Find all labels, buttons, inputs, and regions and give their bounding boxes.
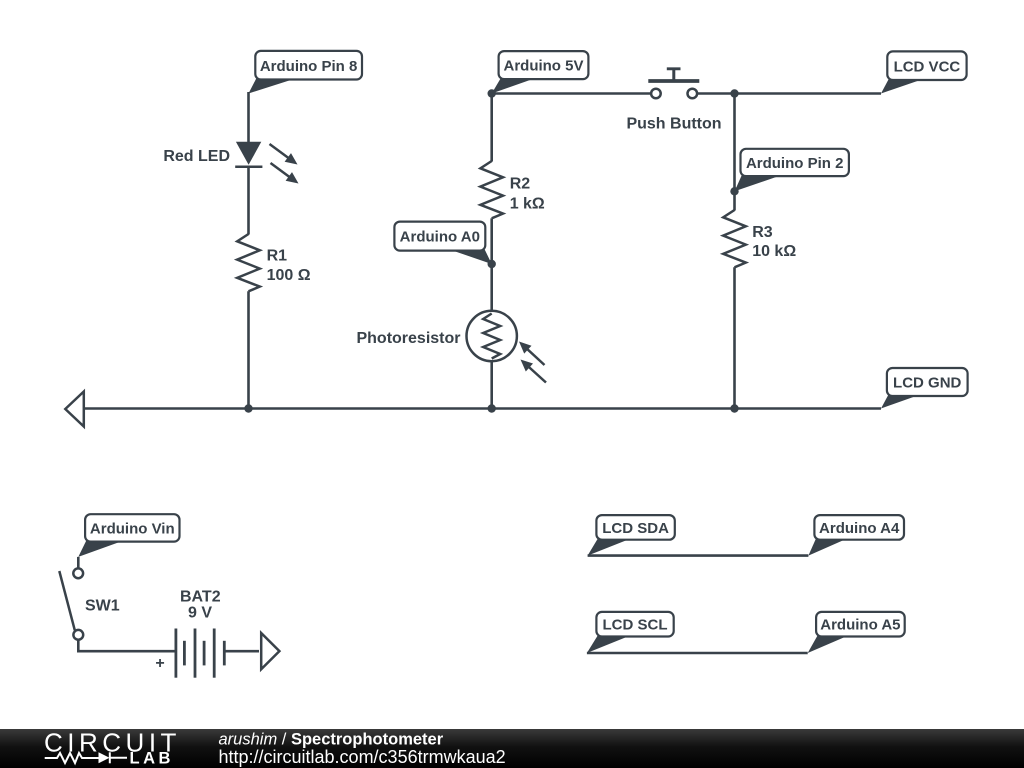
svg-text:Arduino A0: Arduino A0 (400, 229, 480, 246)
svg-text:LAB: LAB (130, 750, 174, 768)
junction rail R3 (730, 404, 738, 412)
svg-text:BAT2: BAT2 (180, 588, 221, 605)
wire LCD VCC junction down to Arduino Pin 2 node (733, 94, 736, 192)
node Arduino A4 (808, 515, 904, 556)
svg-text:Push Button: Push Button (626, 116, 721, 133)
junction on 5V node (488, 89, 496, 97)
svg-text:LCD SCL: LCD SCL (603, 617, 668, 634)
svg-text:LCD GND: LCD GND (893, 375, 961, 392)
wire from Arduino Pin 8 flag down to LED anode (247, 92, 250, 143)
wire R1 to ground rail (247, 291, 250, 408)
CircuitLab logo (44, 728, 181, 768)
wire switch to battery (78, 640, 174, 652)
junction rail R1 (244, 404, 252, 412)
wire R2 to Arduino A0 node (490, 218, 493, 264)
node LCD VCC (881, 51, 967, 93)
node LCD SCL (587, 612, 674, 653)
svg-text:LCD SDA: LCD SDA (602, 520, 669, 537)
label BAT2 9 V (180, 588, 221, 621)
wire Arduino 5V junction down to R2 (490, 94, 493, 162)
resistor R3 (723, 210, 746, 267)
battery BAT2 (176, 629, 224, 678)
wire LCD SDA to Arduino A4 (588, 554, 809, 557)
svg-text:Arduino Pin 2: Arduino Pin 2 (746, 155, 844, 172)
svg-text:10 kΩ: 10 kΩ (752, 243, 796, 260)
junction rail photoresistor (488, 404, 496, 412)
label R2 1 kohm (510, 176, 545, 213)
svg-text:arushim / Spectrophotometer: arushim / Spectrophotometer (219, 731, 444, 749)
push button SW2 (648, 69, 699, 98)
svg-text:1 kΩ: 1 kΩ (510, 195, 545, 212)
LED D1 (Red LED) (235, 142, 298, 184)
resistor R1 (237, 234, 260, 291)
node Arduino A0 (394, 222, 491, 264)
node Arduino A5 (808, 612, 905, 653)
svg-text:Photoresistor: Photoresistor (356, 330, 460, 347)
svg-text:Arduino Vin: Arduino Vin (90, 521, 175, 538)
node Arduino Pin 2 (735, 149, 849, 192)
ground terminal (left arrow) (65, 392, 84, 427)
svg-text:9 V: 9 V (188, 604, 212, 621)
node LCD GND (881, 368, 968, 409)
footer bar (0, 729, 1024, 768)
svg-text:R1: R1 (267, 248, 288, 265)
svg-text:R2: R2 (510, 176, 531, 193)
svg-text:http://circuitlab.com/c356trmw: http://circuitlab.com/c356trmwkaua2 (219, 747, 506, 767)
svg-text:R3: R3 (752, 224, 773, 241)
svg-text:LCD VCC: LCD VCC (894, 58, 961, 75)
node Arduino 5V (492, 51, 589, 93)
svg-text:Arduino A5: Arduino A5 (820, 617, 900, 634)
junction Arduino A0 (488, 260, 496, 268)
wire Arduino 5V junction to push button left terminal (492, 92, 652, 95)
wire LCD SCL to Arduino A5 (587, 652, 808, 655)
wire Arduino A0 node to photoresistor (490, 264, 493, 312)
svg-text:Red LED: Red LED (163, 148, 230, 165)
node LCD SDA (588, 515, 675, 556)
svg-text:SW1: SW1 (85, 597, 120, 614)
node Arduino Vin (78, 514, 179, 557)
svg-text:100 Ω: 100 Ω (267, 267, 311, 284)
resistor R2 (480, 161, 503, 218)
switch SW1 (59, 568, 83, 639)
ground rail wire (84, 407, 882, 410)
junction Arduino Pin 2 (730, 187, 738, 195)
wire battery to output terminal (224, 650, 259, 653)
label R3 10 kohm (752, 224, 796, 260)
svg-text:Arduino A4: Arduino A4 (819, 520, 900, 537)
wire LED cathode to R1 (247, 167, 250, 235)
wire R3 to ground rail (733, 267, 736, 408)
svg-text:+: + (155, 655, 164, 672)
wire Arduino Vin flag to switch (77, 557, 80, 569)
svg-text:Arduino Pin 8: Arduino Pin 8 (260, 58, 358, 75)
photoresistor (467, 311, 547, 383)
wire Arduino Pin 2 node to R3 (733, 191, 736, 210)
junction push button / LCD VCC (730, 89, 738, 97)
output terminal (right arrow) (261, 633, 279, 669)
wire push button right terminal to LCD VCC (697, 92, 881, 95)
wire photoresistor to ground rail (490, 361, 493, 408)
svg-text:Arduino 5V: Arduino 5V (503, 58, 583, 75)
node Arduino Pin 8 (249, 51, 363, 94)
label R1 100 ohm (267, 248, 311, 284)
